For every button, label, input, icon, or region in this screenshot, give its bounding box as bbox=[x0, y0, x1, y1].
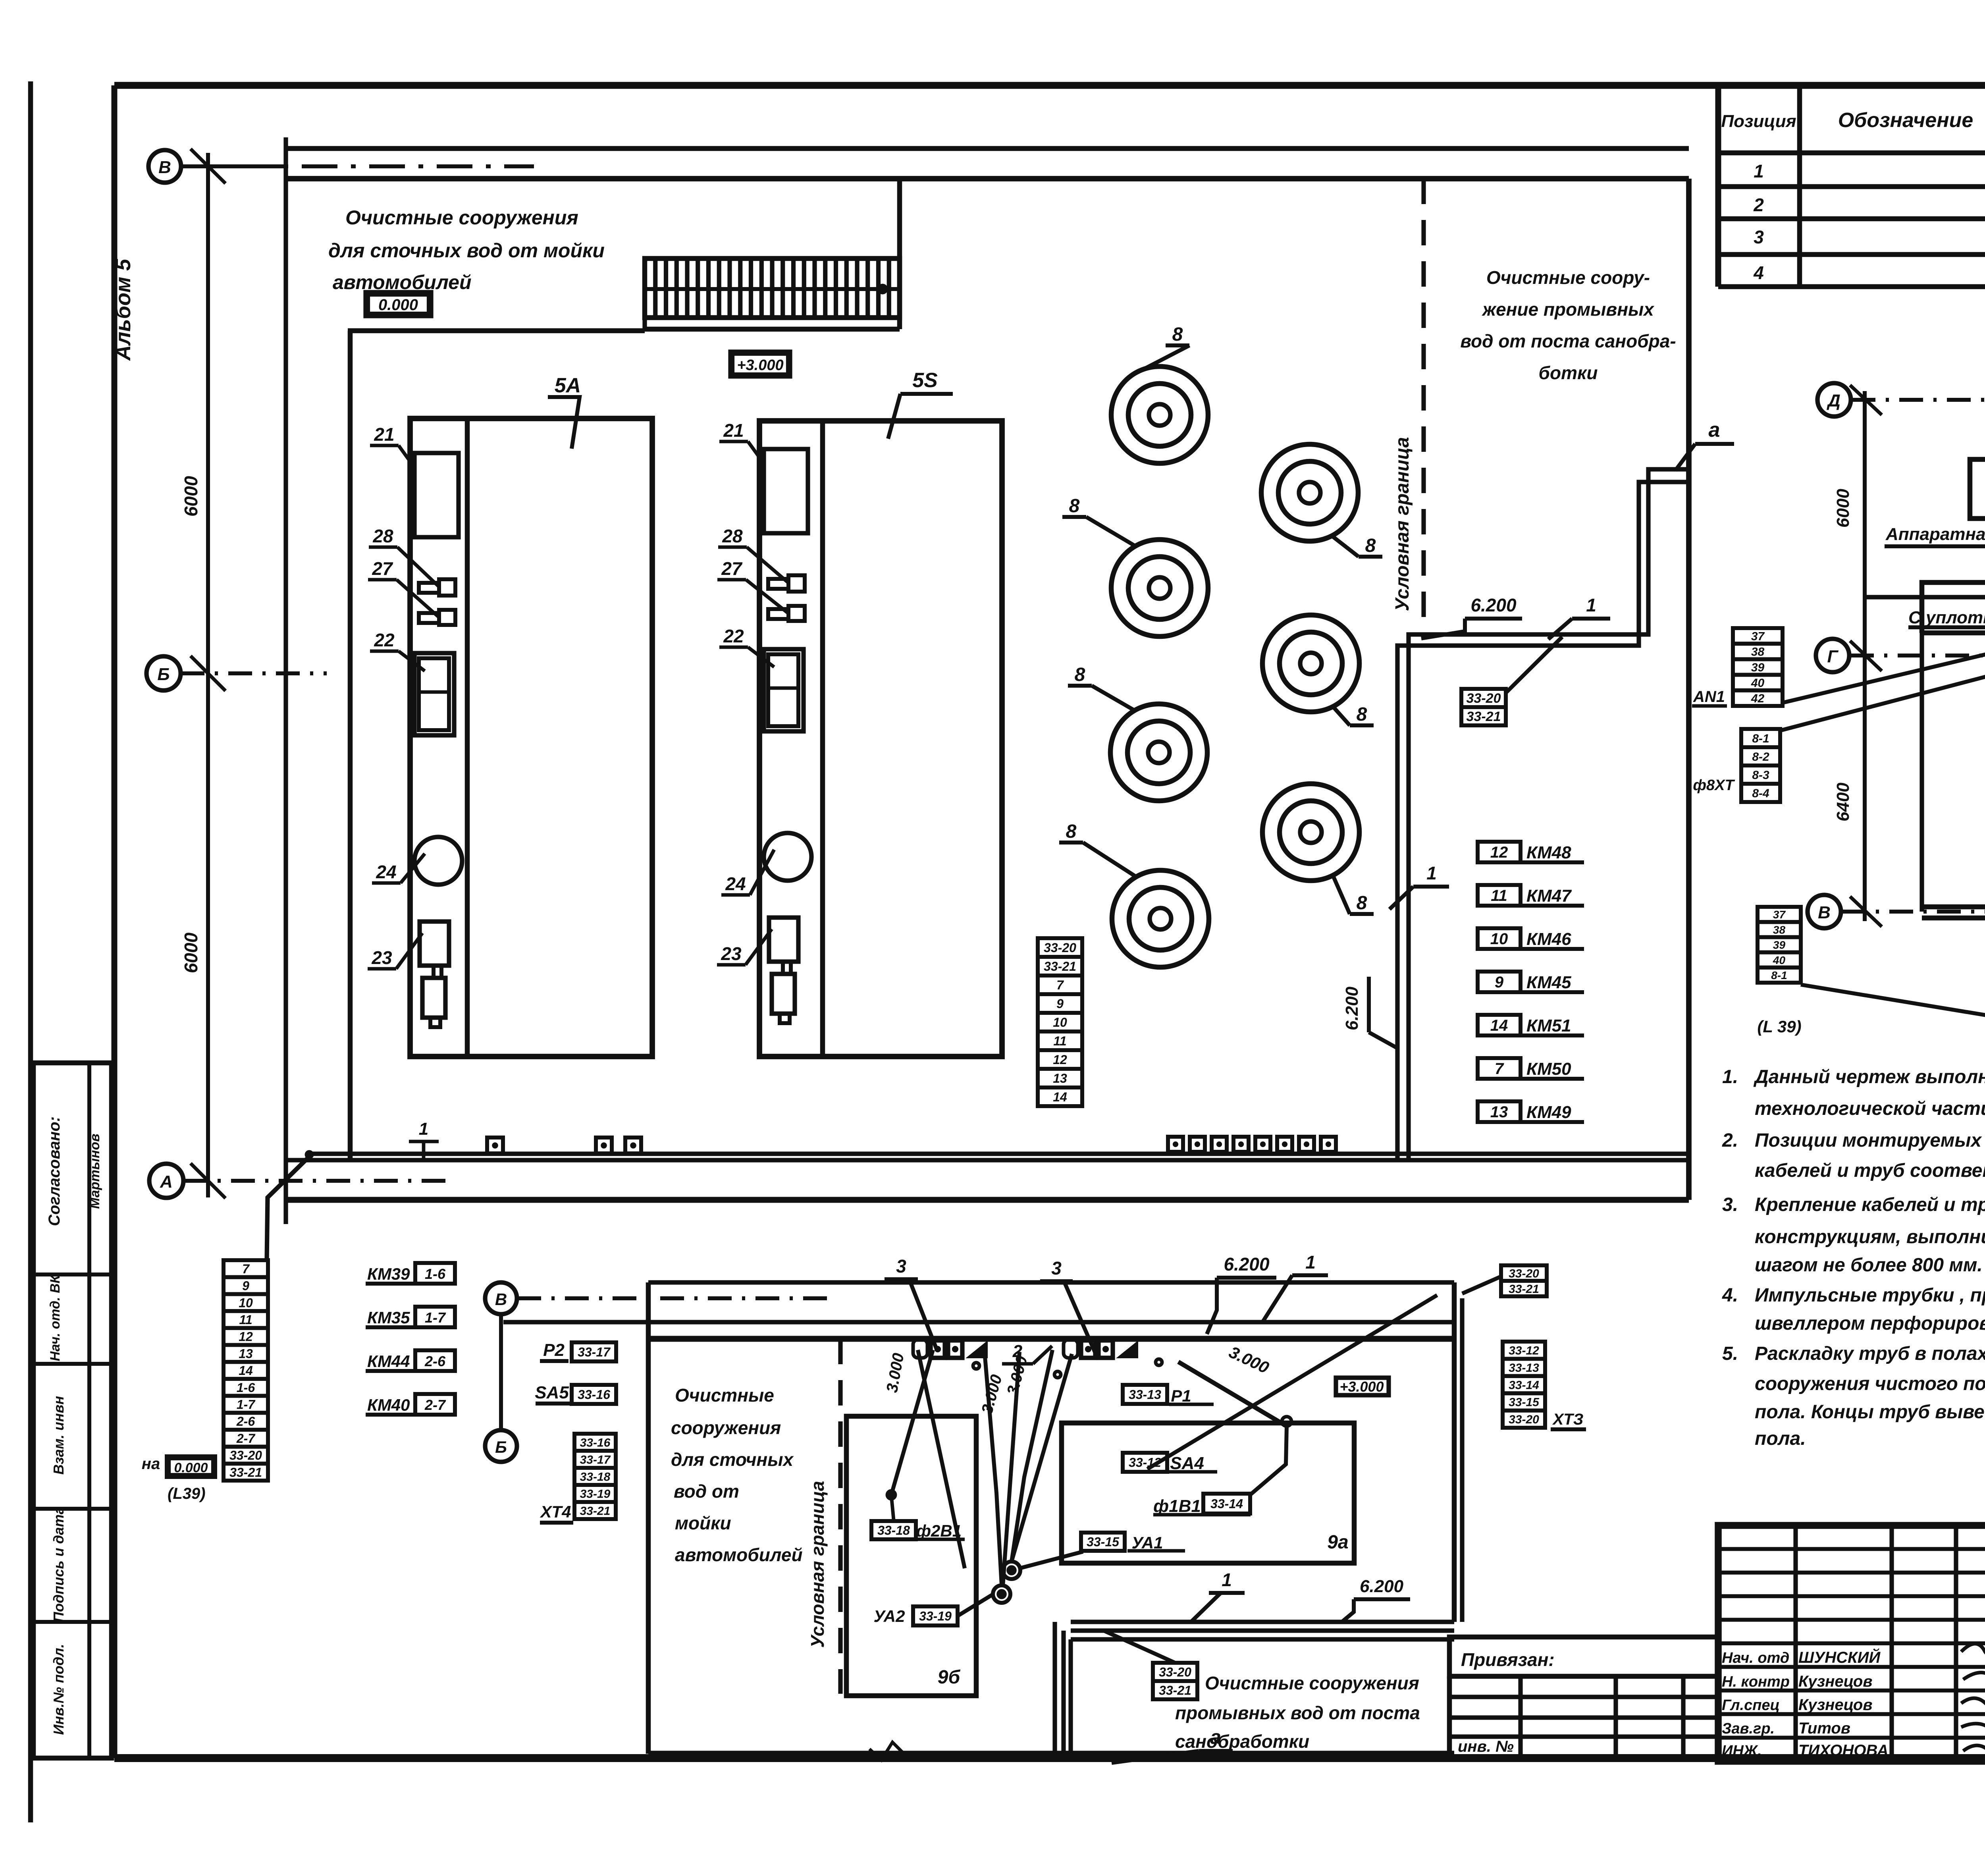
svg-text:С уплотнением: С уплотнением bbox=[1908, 608, 1985, 627]
svg-text:пола.: пола. bbox=[1755, 1428, 1806, 1449]
svg-text:33-14: 33-14 bbox=[1509, 1379, 1539, 1392]
svg-text:6000: 6000 bbox=[1833, 489, 1853, 528]
svg-text:33-13: 33-13 bbox=[1509, 1361, 1539, 1375]
svg-text:8-1: 8-1 bbox=[1771, 969, 1787, 981]
svg-text:В: В bbox=[158, 158, 171, 177]
svg-text:9а: 9а bbox=[1327, 1532, 1348, 1553]
svg-text:9б: 9б bbox=[938, 1667, 961, 1688]
svg-text:Д: Д bbox=[1826, 391, 1840, 411]
svg-text:Гл.спец: Гл.спец bbox=[1722, 1697, 1780, 1714]
svg-text:28: 28 bbox=[372, 526, 393, 546]
svg-text:8: 8 bbox=[1069, 496, 1080, 517]
svg-text:Б: Б bbox=[495, 1438, 507, 1456]
svg-text:на: на bbox=[142, 1455, 160, 1473]
svg-text:4.500: 4.500 bbox=[1982, 718, 1985, 760]
svg-text:Позиции монтируемых приборов: Позиции монтируемых приборов и аппаратур… bbox=[1755, 1130, 1985, 1151]
svg-text:12: 12 bbox=[1490, 844, 1508, 861]
svg-text:21: 21 bbox=[374, 424, 394, 445]
svg-text:33-18: 33-18 bbox=[580, 1470, 611, 1483]
svg-text:33-20: 33-20 bbox=[1159, 1665, 1191, 1679]
svg-text:для сточных вод от мойки: для сточных вод от мойки bbox=[328, 239, 605, 262]
svg-text:11: 11 bbox=[1053, 1034, 1066, 1048]
svg-text:9: 9 bbox=[242, 1279, 249, 1293]
svg-text:Кузнецов: Кузнецов bbox=[1798, 1673, 1873, 1690]
svg-text:2-7: 2-7 bbox=[236, 1431, 256, 1446]
svg-text:КМ49: КМ49 bbox=[1526, 1103, 1571, 1122]
svg-text:+3.000: +3.000 bbox=[737, 357, 783, 374]
svg-text:40: 40 bbox=[1773, 954, 1786, 966]
svg-text:33-20: 33-20 bbox=[229, 1448, 262, 1463]
svg-text:пола. Концы труб вывести н: пола. Концы труб вывести на 100 мм от от… bbox=[1755, 1402, 1985, 1423]
svg-text:2-6: 2-6 bbox=[236, 1414, 255, 1429]
svg-text:5S: 5S bbox=[912, 369, 938, 392]
svg-text:33-16: 33-16 bbox=[580, 1436, 611, 1449]
svg-text:27: 27 bbox=[372, 558, 393, 579]
svg-text:23: 23 bbox=[721, 943, 742, 964]
svg-text:автомобилей: автомобилей bbox=[675, 1544, 803, 1565]
svg-text:КМ46: КМ46 bbox=[1526, 929, 1571, 949]
svg-text:10: 10 bbox=[239, 1296, 253, 1310]
svg-text:Н. контр: Н. контр bbox=[1722, 1674, 1790, 1690]
svg-text:33-16: 33-16 bbox=[578, 1388, 610, 1402]
svg-text:33-21: 33-21 bbox=[1159, 1683, 1191, 1698]
svg-text:39: 39 bbox=[1773, 939, 1786, 951]
svg-text:В: В bbox=[495, 1290, 507, 1309]
svg-text:КМ50: КМ50 bbox=[1526, 1059, 1571, 1079]
svg-text:2-7: 2-7 bbox=[424, 1397, 446, 1413]
svg-text:Привязан:: Привязан: bbox=[1461, 1649, 1555, 1670]
svg-text:37: 37 bbox=[1773, 908, 1786, 921]
svg-text:40: 40 bbox=[1751, 677, 1765, 690]
svg-text:технологической части проект: технологической части проекта. bbox=[1755, 1098, 1985, 1119]
svg-text:Зав.гр.: Зав.гр. bbox=[1722, 1720, 1775, 1737]
svg-text:Обозначение: Обозначение bbox=[1838, 109, 1973, 132]
svg-text:27: 27 bbox=[721, 558, 743, 579]
svg-text:38: 38 bbox=[1751, 646, 1765, 659]
svg-text:33-15: 33-15 bbox=[1509, 1396, 1540, 1409]
svg-text:УА2: УА2 bbox=[874, 1607, 905, 1625]
svg-text:Условная граница: Условная граница bbox=[1392, 437, 1413, 611]
svg-text:0.000: 0.000 bbox=[174, 1460, 208, 1475]
svg-text:Очистные сооружения: Очистные сооружения bbox=[1205, 1673, 1419, 1693]
svg-text:12: 12 bbox=[239, 1330, 253, 1344]
svg-text:санобработки: санобработки bbox=[1175, 1731, 1309, 1752]
svg-text:Позиция: Позиция bbox=[1721, 112, 1796, 131]
svg-text:SА5: SА5 bbox=[535, 1383, 569, 1402]
svg-text:33-20: 33-20 bbox=[1509, 1413, 1539, 1426]
svg-text:шагом не более 800 мм.: шагом не более 800 мм. bbox=[1755, 1255, 1983, 1276]
svg-text:12: 12 bbox=[1053, 1053, 1067, 1067]
svg-text:для сточных: для сточных bbox=[671, 1449, 794, 1470]
svg-text:33-17: 33-17 bbox=[580, 1453, 611, 1466]
svg-text:ШУНСКИЙ: ШУНСКИЙ bbox=[1798, 1648, 1881, 1666]
svg-text:33-17: 33-17 bbox=[578, 1345, 611, 1359]
svg-text:Аппаратная: Аппаратная bbox=[1885, 524, 1985, 544]
svg-text:АN1: АN1 bbox=[1693, 688, 1725, 706]
svg-text:сооружения: сооружения bbox=[671, 1417, 781, 1438]
svg-text:1-7: 1-7 bbox=[237, 1397, 256, 1411]
svg-text:6000: 6000 bbox=[181, 476, 201, 517]
svg-text:2-6: 2-6 bbox=[424, 1353, 446, 1369]
svg-text:швеллером перфорированным.: швеллером перфорированным. bbox=[1755, 1313, 1985, 1334]
svg-text:22: 22 bbox=[374, 630, 395, 650]
svg-text:37: 37 bbox=[1751, 630, 1765, 643]
svg-text:инв. №: инв. № bbox=[1458, 1738, 1514, 1755]
svg-text:39: 39 bbox=[1751, 661, 1765, 674]
svg-text:33-20: 33-20 bbox=[1467, 691, 1501, 706]
svg-text:38: 38 bbox=[1773, 924, 1786, 936]
svg-text:Очистные сооружения: Очистные сооружения bbox=[345, 206, 578, 229]
svg-text:+3.000: +3.000 bbox=[1339, 1379, 1384, 1395]
svg-text:5А: 5А bbox=[555, 374, 581, 397]
svg-text:Альбом 5: Альбом 5 bbox=[111, 258, 135, 361]
svg-text:13: 13 bbox=[239, 1346, 253, 1361]
svg-text:8: 8 bbox=[1172, 324, 1183, 345]
svg-text:6000: 6000 bbox=[181, 932, 201, 973]
svg-text:Б: Б bbox=[157, 665, 170, 684]
svg-text:33-21: 33-21 bbox=[1509, 1282, 1539, 1296]
svg-text:33-21: 33-21 bbox=[229, 1465, 262, 1479]
svg-text:6.200: 6.200 bbox=[1360, 1577, 1404, 1596]
svg-text:33-19: 33-19 bbox=[580, 1487, 611, 1500]
svg-text:Подпись и дата: Подпись и дата bbox=[50, 1506, 67, 1622]
svg-text:8: 8 bbox=[1357, 893, 1367, 914]
svg-text:Титов: Титов bbox=[1798, 1720, 1850, 1737]
svg-text:6.200: 6.200 bbox=[1224, 1254, 1270, 1274]
svg-text:Инв.№ подл.: Инв.№ подл. bbox=[50, 1644, 67, 1735]
svg-text:28: 28 bbox=[722, 526, 743, 546]
svg-text:Нач. отд: Нач. отд bbox=[1722, 1650, 1789, 1666]
svg-text:КМ45: КМ45 bbox=[1526, 973, 1571, 992]
svg-text:Р1: Р1 bbox=[1171, 1386, 1191, 1405]
svg-text:33-14: 33-14 bbox=[1210, 1497, 1243, 1511]
svg-text:9: 9 bbox=[1056, 997, 1064, 1011]
svg-text:Согласовано:: Согласовано: bbox=[46, 1116, 63, 1226]
svg-text:конструкциям, выполнить скоба: конструкциям, выполнить скобами и монтаж… bbox=[1755, 1226, 1985, 1247]
svg-text:21: 21 bbox=[723, 420, 744, 441]
svg-text:ХТ4: ХТ4 bbox=[540, 1502, 571, 1521]
svg-text:А: А bbox=[160, 1172, 173, 1192]
svg-text:6.200: 6.200 bbox=[1342, 986, 1362, 1030]
svg-text:(L39): (L39) bbox=[168, 1485, 206, 1502]
svg-text:а: а bbox=[1709, 418, 1720, 442]
svg-text:КМ40: КМ40 bbox=[367, 1396, 410, 1414]
svg-text:сооружения чистого пола на: сооружения чистого пола на минус 100 мм … bbox=[1755, 1373, 1985, 1394]
svg-text:8-2: 8-2 bbox=[1752, 750, 1769, 764]
svg-text:В: В bbox=[1818, 903, 1831, 922]
svg-text:1: 1 bbox=[1426, 863, 1437, 883]
svg-text:КМ51: КМ51 bbox=[1526, 1016, 1571, 1035]
svg-text:14: 14 bbox=[239, 1363, 253, 1378]
svg-text:42: 42 bbox=[1751, 692, 1765, 705]
svg-text:24: 24 bbox=[376, 862, 396, 882]
svg-text:3: 3 bbox=[1051, 1258, 1062, 1278]
svg-text:Очистные соору-: Очистные соору- bbox=[1486, 267, 1650, 288]
svg-text:1: 1 bbox=[1222, 1569, 1232, 1590]
svg-text:КМ48: КМ48 bbox=[1526, 843, 1571, 862]
svg-text:14: 14 bbox=[1490, 1017, 1508, 1034]
svg-text:1-6: 1-6 bbox=[237, 1380, 255, 1395]
svg-text:33-20: 33-20 bbox=[1509, 1267, 1539, 1280]
svg-text:33-20: 33-20 bbox=[1044, 941, 1076, 955]
svg-text:(L 39): (L 39) bbox=[1757, 1017, 1801, 1036]
svg-text:7: 7 bbox=[242, 1262, 250, 1276]
svg-text:кабелей и труб соответствуют: кабелей и труб соответствуют схемам внеш… bbox=[1755, 1160, 1985, 1181]
svg-text:1: 1 bbox=[1305, 1252, 1316, 1273]
svg-text:Крепление кабелей и труб, пр: Крепление кабелей и труб, прокладываемых… bbox=[1755, 1194, 1985, 1215]
svg-text:8-4: 8-4 bbox=[1752, 787, 1769, 800]
svg-text:2: 2 bbox=[1753, 195, 1764, 215]
svg-text:10: 10 bbox=[1053, 1015, 1067, 1030]
svg-text:1-7: 1-7 bbox=[425, 1309, 446, 1326]
svg-text:Кузнецов: Кузнецов bbox=[1798, 1696, 1873, 1714]
svg-text:7: 7 bbox=[1056, 978, 1064, 992]
svg-text:1-6: 1-6 bbox=[425, 1266, 446, 1282]
svg-text:3: 3 bbox=[896, 1256, 906, 1276]
svg-text:33-21: 33-21 bbox=[1467, 709, 1501, 724]
svg-text:33-18: 33-18 bbox=[877, 1523, 910, 1538]
svg-text:0.000: 0.000 bbox=[378, 296, 418, 314]
svg-text:мойки: мойки bbox=[675, 1513, 731, 1533]
svg-text:33-13: 33-13 bbox=[1129, 1388, 1161, 1402]
svg-text:Очистные: Очистные bbox=[675, 1385, 774, 1406]
svg-text:1: 1 bbox=[1754, 161, 1764, 181]
svg-text:13: 13 bbox=[1490, 1103, 1508, 1121]
svg-text:Г: Г bbox=[1827, 647, 1839, 666]
svg-text:6400: 6400 bbox=[1833, 783, 1853, 821]
svg-text:33-21: 33-21 bbox=[1044, 959, 1076, 974]
svg-text:23: 23 bbox=[371, 947, 392, 968]
svg-text:11: 11 bbox=[1491, 887, 1507, 904]
svg-text:4: 4 bbox=[1753, 262, 1764, 283]
svg-text:промывных вод от поста: промывных вод от поста bbox=[1175, 1702, 1420, 1723]
svg-text:КМ35: КМ35 bbox=[367, 1308, 410, 1327]
svg-text:7: 7 bbox=[1495, 1060, 1504, 1078]
svg-text:ХТЗ: ХТЗ bbox=[1552, 1411, 1584, 1428]
svg-text:ф8ХТ: ф8ХТ bbox=[1693, 777, 1735, 794]
svg-text:5.: 5. bbox=[1722, 1343, 1738, 1364]
svg-text:Данный чертеж выполнен на: Данный чертеж выполнен на основании стро… bbox=[1753, 1066, 1985, 1087]
svg-text:Импульсные трубки , проложенн: Импульсные трубки , проложенные открыто … bbox=[1755, 1285, 1985, 1306]
svg-text:жение промывных: жение промывных bbox=[1481, 299, 1655, 320]
svg-text:КМ47: КМ47 bbox=[1526, 886, 1572, 906]
svg-text:24: 24 bbox=[725, 873, 746, 894]
svg-text:8: 8 bbox=[1357, 704, 1367, 725]
svg-text:Мартынов: Мартынов bbox=[87, 1134, 102, 1209]
svg-text:КМ44: КМ44 bbox=[367, 1352, 410, 1371]
svg-text:Взам. инвн: Взам. инвн bbox=[50, 1396, 67, 1475]
svg-text:8-3: 8-3 bbox=[1752, 769, 1769, 782]
svg-text:Раскладку труб в полах для: Раскладку труб в полах для электропровод… bbox=[1755, 1343, 1985, 1364]
svg-text:10: 10 bbox=[1490, 930, 1508, 948]
svg-text:ИНЖ.: ИНЖ. bbox=[1722, 1743, 1762, 1759]
svg-text:вод от поста санобра-: вод от поста санобра- bbox=[1460, 331, 1676, 351]
svg-text:Условная граница: Условная граница bbox=[807, 1481, 828, 1648]
svg-text:вод от: вод от bbox=[674, 1481, 739, 1502]
svg-text:1: 1 bbox=[419, 1119, 428, 1139]
svg-text:8: 8 bbox=[1365, 535, 1376, 556]
svg-text:22: 22 bbox=[723, 626, 744, 646]
svg-text:Нач. отд. ВК: Нач. отд. ВК bbox=[48, 1274, 63, 1361]
svg-text:6.200: 6.200 bbox=[1470, 595, 1517, 615]
svg-text:8: 8 bbox=[1066, 821, 1077, 842]
svg-text:14: 14 bbox=[1053, 1090, 1067, 1104]
svg-text:33-12: 33-12 bbox=[1509, 1344, 1539, 1357]
svg-text:ботки: ботки bbox=[1539, 362, 1598, 383]
svg-text:3.: 3. bbox=[1722, 1194, 1738, 1215]
svg-text:9: 9 bbox=[1495, 974, 1504, 991]
svg-text:33-19: 33-19 bbox=[919, 1609, 952, 1623]
svg-text:8-1: 8-1 bbox=[1752, 732, 1769, 745]
svg-text:1: 1 bbox=[1586, 595, 1596, 615]
svg-text:4.: 4. bbox=[1722, 1285, 1738, 1306]
svg-text:13: 13 bbox=[1053, 1071, 1067, 1085]
svg-text:Р2: Р2 bbox=[543, 1340, 565, 1360]
svg-text:8: 8 bbox=[1075, 664, 1085, 685]
svg-text:11: 11 bbox=[239, 1313, 252, 1327]
svg-text:3: 3 bbox=[1754, 227, 1764, 247]
svg-text:ТИХОНОВА: ТИХОНОВА bbox=[1798, 1742, 1889, 1759]
svg-text:33-21: 33-21 bbox=[580, 1504, 611, 1517]
svg-text:1.: 1. bbox=[1722, 1066, 1738, 1087]
svg-text:КМ39: КМ39 bbox=[367, 1265, 410, 1283]
svg-text:33-15: 33-15 bbox=[1087, 1535, 1120, 1549]
svg-text:а: а bbox=[1210, 1726, 1221, 1748]
svg-text:2.: 2. bbox=[1722, 1130, 1738, 1151]
